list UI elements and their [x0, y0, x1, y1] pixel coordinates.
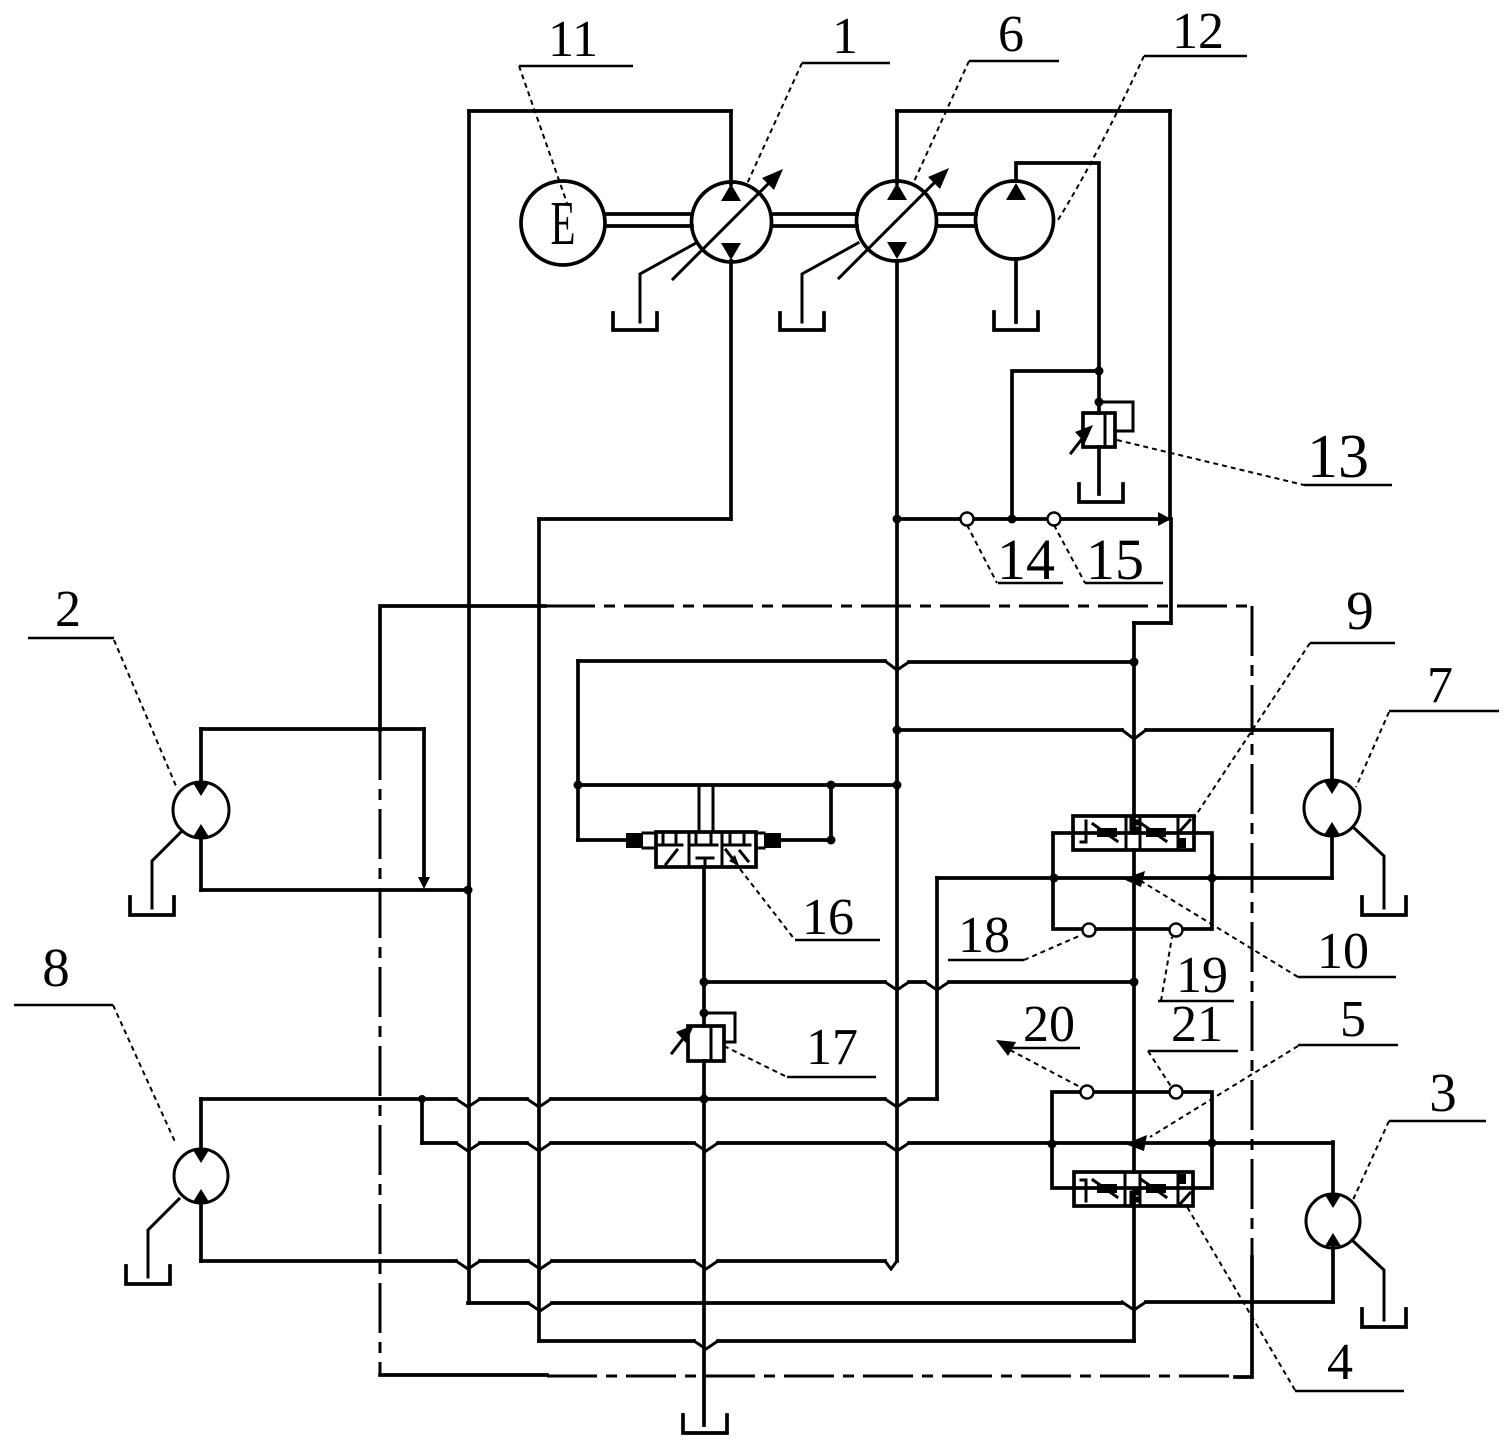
- svg-text:6: 6: [998, 6, 1024, 63]
- wire bus y=878: [937, 876, 1332, 880]
- wire bus y=1143: [422, 1141, 1333, 1145]
- wire lineC right riser x=1134: [1132, 1340, 1136, 1341]
- wire valve16 pilot rail y=785: [578, 783, 897, 787]
- wire motor3 top riser: [1331, 1142, 1335, 1195]
- node jump y=730 over x=1134: [1122, 730, 1146, 739]
- node jump y=661 over x=897: [885, 661, 909, 670]
- node dot block-right y=878: [1208, 874, 1217, 883]
- node dot block2-left y=1143: [1048, 1140, 1057, 1149]
- label 14: [967, 525, 1063, 592]
- svg-text:8: 8: [42, 937, 70, 998]
- wire box1 left vertical x=469: [467, 111, 471, 1303]
- tank under pump6: [780, 313, 824, 330]
- wire valve16 left port y=840: [578, 838, 626, 842]
- shaft pump1 to pump6: [772, 214, 857, 226]
- label 10: [1123, 871, 1396, 980]
- wire mid-right vertical x=1134 upper: [1132, 623, 1136, 833]
- svg-text:17: 17: [806, 1019, 858, 1076]
- svg-text:18: 18: [958, 907, 1010, 964]
- motor 2: [173, 782, 229, 838]
- label 3: [1352, 1062, 1486, 1202]
- wire supply header y=519 right: [897, 517, 1166, 521]
- tank bottom (main return): [683, 1415, 727, 1433]
- wire pump1 drain diagonal: [640, 243, 696, 322]
- wire valve16 right riser x=831: [829, 785, 833, 840]
- svg-text:16: 16: [802, 889, 854, 946]
- node dot y=730 at x=897: [893, 726, 902, 735]
- wire valve16 outlet x=704: [702, 867, 706, 1026]
- wire pump6 top riser x=897: [895, 111, 899, 183]
- label 8: [14, 937, 176, 1144]
- node dot pump12 bypass tee: [1095, 367, 1104, 376]
- wire P-line y=730: [897, 728, 1332, 732]
- shaft pump6 to pump12: [937, 214, 976, 226]
- svg-text:5: 5: [1340, 991, 1366, 1048]
- svg-text:4: 4: [1327, 1334, 1353, 1391]
- node dot block-left y=878: [1050, 874, 1059, 883]
- label 15: [1054, 525, 1163, 592]
- node arrow end of y=519 at x=1170: [1158, 512, 1171, 526]
- node dot rail at x=897: [893, 781, 902, 790]
- wire pump6 drain diagonal: [802, 243, 858, 322]
- wire bus y=1099: [201, 1097, 937, 1101]
- wire relief13 outlet to tank: [1097, 447, 1101, 494]
- label 1: [746, 8, 890, 186]
- wire line C y=1341: [539, 1339, 1134, 1343]
- wire motor2 bottom line y=890: [201, 888, 468, 892]
- label 16: [740, 869, 880, 946]
- node jump y=982 over x=937: [925, 982, 949, 990]
- wire valve16 loop top y=661: [578, 661, 1134, 662]
- test point 21 circle: [1170, 1086, 1183, 1099]
- label 11: [519, 11, 633, 203]
- wire motor3 drain: [1352, 1240, 1384, 1320]
- wire box2 top edge y=111: [897, 109, 1170, 113]
- node dot x=1134 y=982: [1130, 978, 1139, 987]
- label 7: [1356, 657, 1499, 787]
- wire valve16 loop left x=578: [576, 661, 580, 840]
- label 13: [1117, 423, 1392, 491]
- wire mid vertical x=539: [537, 519, 541, 1341]
- node dot x=1012 y=519: [1008, 515, 1017, 524]
- test point 14 circle: [961, 513, 974, 526]
- tank under relief13: [1079, 484, 1123, 502]
- svg-text:12: 12: [1172, 3, 1224, 60]
- svg-text:9: 9: [1346, 580, 1374, 641]
- label 6: [912, 6, 1059, 186]
- node jump lineB over x=540: [528, 1303, 552, 1311]
- node jump y=1143 over x=539: [527, 1143, 551, 1151]
- wire motor7 drain: [1353, 827, 1384, 908]
- tank under pump1: [613, 313, 657, 330]
- wire motor2 top line y=729: [201, 727, 424, 731]
- test point 20 circle: [1081, 1086, 1094, 1099]
- tank under motor2: [130, 897, 174, 915]
- wire valve16 top stubs: [699, 785, 713, 832]
- label 19: [1158, 937, 1234, 1004]
- svg-text:10: 10: [1317, 923, 1369, 980]
- tank under motor8: [126, 1266, 170, 1284]
- svg-text:3: 3: [1429, 1062, 1457, 1123]
- label 4: [1186, 1205, 1404, 1391]
- wire relief17 outlet x=704: [702, 1061, 706, 1425]
- svg-text:13: 13: [1307, 423, 1369, 491]
- node dot x=897 y=519: [893, 515, 902, 524]
- node dot x=704 y=1099: [700, 1095, 709, 1104]
- wire motor2 drain: [152, 832, 181, 908]
- wire motor8 drain: [148, 1199, 179, 1277]
- node jump y=982 over x=897: [885, 982, 909, 990]
- node jump lineA over x=539: [528, 1261, 552, 1269]
- node jump y=1143 over x=706: [694, 1143, 718, 1151]
- wire line B y=1302: [468, 1302, 1333, 1303]
- pump 12 (fixed displacement): [976, 181, 1054, 259]
- wire pump6 bottom line x=897: [895, 261, 899, 1261]
- node arrow end x=424 onto y=890: [418, 877, 430, 889]
- node jump y=1099 over x=897: [885, 1099, 909, 1107]
- svg-text:21: 21: [1171, 996, 1223, 1053]
- node end lineA at x=897: [885, 1261, 897, 1269]
- valve 9 (shuttle valve block): [1073, 816, 1194, 850]
- svg-text:11: 11: [548, 11, 598, 68]
- wire x=1134 through blocks: [1132, 850, 1136, 1340]
- tank under pump12: [994, 312, 1038, 330]
- wire pump12 top loop: [1016, 163, 1099, 413]
- label 12: [1058, 3, 1247, 220]
- node dot valve16 rail left: [574, 781, 583, 790]
- wire pump1 bottom line x=731: [729, 261, 733, 519]
- motor E (electric): [521, 181, 605, 265]
- pump 1 (variable displacement): [673, 169, 783, 279]
- wire branch x=422: [420, 1099, 424, 1143]
- wire drop x=424: [422, 729, 426, 880]
- node dot valve16 right port: [827, 836, 836, 845]
- valve 4 (shuttle valve block): [1074, 1172, 1193, 1206]
- node jump lineB over x=1134: [1122, 1302, 1146, 1310]
- node dot block2-right y=1143: [1208, 1139, 1217, 1148]
- wire vertical x=937: [935, 878, 939, 1099]
- wire motor7 top riser: [1330, 730, 1334, 780]
- label 21: [1148, 996, 1238, 1088]
- svg-text:E: E: [551, 190, 576, 258]
- node jump y=1099 over x=468: [456, 1099, 480, 1107]
- wire tie y=982: [704, 980, 1134, 984]
- wire line A y=1261: [201, 1259, 885, 1263]
- node dot relief13 pilot tee: [1095, 398, 1104, 407]
- wire pump1 top riser x=731: [729, 111, 733, 184]
- wire relief13 bypass y=371: [1012, 371, 1099, 519]
- node jump y=1143 over x=468: [456, 1143, 480, 1151]
- node jump lineA over x=468: [456, 1261, 480, 1269]
- wire motor7 bottom riser: [1330, 836, 1334, 878]
- node jump y=1099 over x=539: [527, 1099, 551, 1107]
- wire motor8 port stubs: [199, 1099, 203, 1261]
- wire motor3 bottom riser: [1331, 1247, 1335, 1302]
- wire pump12 bottom to tank: [1014, 259, 1018, 322]
- svg-text:20: 20: [1023, 996, 1075, 1053]
- wire box1 top edge y=111: [469, 109, 731, 113]
- pump 6 (variable displacement): [839, 168, 949, 278]
- relief valve 13: [1071, 402, 1133, 453]
- label 18: [948, 907, 1079, 964]
- svg-text:1: 1: [832, 8, 858, 65]
- enclosure dash-dot boundary: [380, 606, 1252, 1377]
- node dot x=704 y=982: [700, 978, 709, 987]
- wire valve16 right port y=840: [782, 838, 831, 842]
- svg-text:2: 2: [55, 581, 81, 638]
- valve 16 (directional): [626, 832, 781, 867]
- motor 8: [174, 1149, 228, 1203]
- node dot y=661 at x=1134: [1130, 658, 1139, 667]
- wire pump1-bottom horizontal y=519: [539, 517, 731, 521]
- relief valve 17: [672, 1013, 735, 1061]
- block upper (brake assembly of 7): [1053, 833, 1212, 929]
- svg-text:7: 7: [1427, 657, 1453, 714]
- test point 19 circle: [1170, 924, 1183, 937]
- test point 15 circle: [1048, 513, 1061, 526]
- wire jog y=623: [1134, 621, 1171, 625]
- test point 18 circle: [1083, 924, 1096, 937]
- motor 7: [1304, 780, 1360, 836]
- wire motor2 port stubs: [199, 729, 203, 890]
- wire box2 right vertical x=1172: [1170, 111, 1171, 623]
- label 20: [996, 996, 1082, 1088]
- node dot valve16 rail right riser: [827, 781, 836, 790]
- tank under motor3: [1362, 1309, 1406, 1327]
- label 2: [28, 581, 176, 786]
- label 17: [724, 1019, 876, 1077]
- node jump y=1143 over x=897: [885, 1143, 909, 1151]
- node dot motor2 bottom at x=468: [464, 886, 473, 895]
- motor 3: [1306, 1194, 1360, 1248]
- node jump lineC over x=706: [694, 1341, 718, 1349]
- node dot relief17 pilot tee: [700, 1009, 709, 1018]
- block lower (brake assembly of 3): [1052, 1092, 1212, 1188]
- label 5: [1125, 991, 1398, 1151]
- node jump lineA over x=706: [694, 1261, 718, 1269]
- tank under motor7: [1362, 897, 1406, 915]
- node dot x=422 y=1099: [418, 1095, 426, 1103]
- label 9: [1192, 580, 1395, 821]
- shaft E to pump1: [605, 214, 692, 226]
